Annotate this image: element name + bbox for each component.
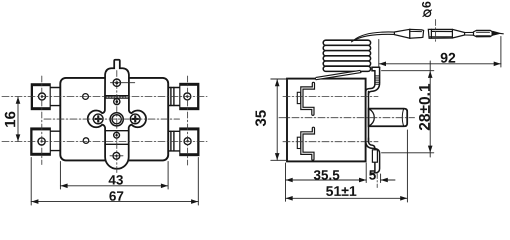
body hole upper-left <box>83 94 89 100</box>
tab hole upper-left <box>39 93 46 100</box>
tab hole lower-right <box>184 138 191 145</box>
centerline row bottom y=141.5 <box>2 141 207 143</box>
text label 51±1 <box>326 186 356 196</box>
body hole lower-left <box>83 138 89 144</box>
hole below center <box>114 132 120 138</box>
side body outline <box>287 79 366 162</box>
sensor tip cone <box>493 31 504 36</box>
text label dia6 <box>422 2 432 17</box>
column interior edge lines <box>105 96 129 145</box>
terminal tab lower-left <box>31 128 51 155</box>
terminal neck lower-left <box>50 131 61 150</box>
text label 67 <box>109 191 123 201</box>
capillary tube into body <box>316 70 361 80</box>
capillary coil <box>323 40 370 71</box>
shaft <box>369 109 408 127</box>
capillary tube to sensor <box>352 32 395 42</box>
hole on dome <box>111 79 135 86</box>
dimension 16 <box>16 97 21 142</box>
left screw with cross slot <box>93 114 103 124</box>
bracket top tab <box>366 67 380 94</box>
dimension 43 <box>60 162 168 190</box>
text label 5 <box>369 170 376 179</box>
centerline row top y=96.5 <box>2 96 207 98</box>
dimension 51±1 <box>286 130 408 202</box>
dimension 28±0.1 <box>382 61 434 157</box>
clip row centerline top <box>283 96 378 98</box>
sensor sleeve taper <box>394 29 423 38</box>
tab hole lower-left <box>38 138 45 145</box>
right screw with cross slot <box>130 114 140 124</box>
bracket bottom tab <box>366 138 380 173</box>
text label 35 <box>255 110 266 126</box>
dimension 35.5 <box>286 163 367 201</box>
vertical column centerline <box>116 71 118 175</box>
bulb centerline <box>435 20 437 44</box>
hole above center <box>114 99 120 105</box>
text label 35.5 <box>314 170 340 180</box>
center bushing double circle <box>110 113 123 126</box>
bottom tab centerline <box>376 174 378 188</box>
tab centerline vertical right x=187.6 <box>187 76 189 165</box>
terminal tab upper-right <box>180 83 199 109</box>
dimension 5 <box>355 174 395 183</box>
hole in lower U <box>110 152 123 159</box>
tab hole upper-right <box>184 93 191 100</box>
sensor bulb <box>428 29 464 38</box>
text label 28±0.1 <box>419 84 430 130</box>
terminal clip upper (side view) <box>297 83 313 114</box>
dimension 67 <box>31 158 198 206</box>
sensor neck <box>465 32 474 35</box>
terminal tab upper-left <box>31 84 50 110</box>
text label 43 <box>109 175 123 185</box>
terminal neck upper-right <box>168 88 180 106</box>
dimension 35 <box>271 79 288 160</box>
clip row centerline bottom <box>283 141 378 143</box>
shaft centerline <box>279 117 415 119</box>
dimension 92 <box>379 37 501 68</box>
center column piece (dome, clover, lower U) <box>88 60 146 169</box>
text label 92 <box>441 53 456 63</box>
terminal neck lower-right <box>168 131 180 151</box>
mounting bracket plate <box>368 92 370 143</box>
body centerline horizontal <box>44 118 180 120</box>
tab centerline vertical left x=41.8 <box>41 76 43 165</box>
main body outline <box>60 78 168 160</box>
text label 16 <box>5 112 16 127</box>
terminal neck upper-left <box>50 88 61 106</box>
terminal clip lower (side view) <box>297 128 313 159</box>
terminal tab lower-right <box>180 128 199 156</box>
sensor end capsule <box>474 30 493 36</box>
